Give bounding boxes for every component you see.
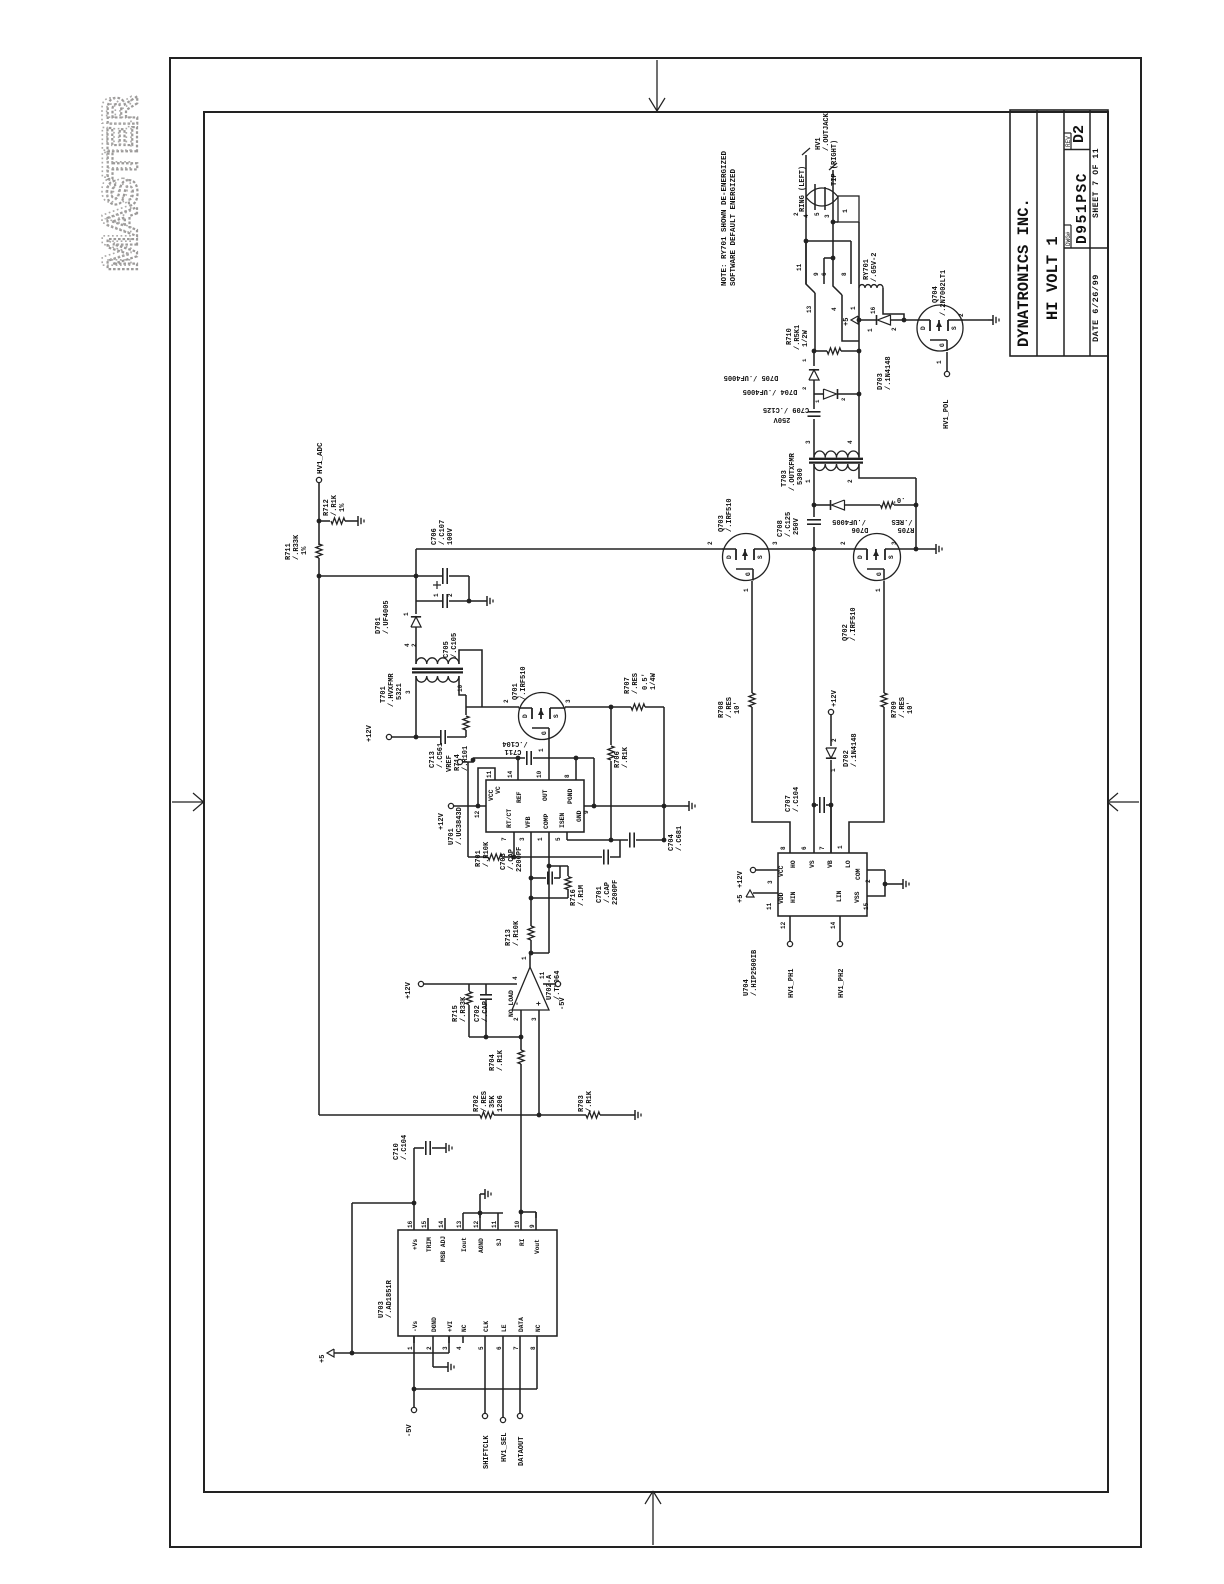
svg-text:/.C561: /.C561: [437, 743, 445, 768]
svg-text:R708: R708: [718, 701, 726, 718]
svg-text:NO LOAD: NO LOAD: [508, 990, 515, 1017]
svg-text:+5: +5: [737, 895, 745, 903]
svg-text:4: 4: [456, 1346, 463, 1350]
svg-text:C704: C704: [668, 834, 676, 851]
svg-text:/.R1K: /.R1K: [497, 1049, 505, 1071]
svg-text:D706: D706: [852, 525, 869, 533]
svg-text:NOTE: RY701 SHOWN DE-ENERGIZE: NOTE: RY701 SHOWN DE-ENERGIZED: [721, 150, 729, 286]
svg-text:250V: 250V: [773, 415, 791, 423]
svg-text:VCC: VCC: [488, 789, 495, 801]
svg-text:/.R33K: /.R33K: [293, 534, 301, 560]
svg-text:1/2W: 1/2W: [802, 329, 810, 347]
svg-text:/.OUTXFMR: /.OUTXFMR: [789, 452, 797, 491]
svg-text:/.1N4148: /.1N4148: [851, 733, 859, 767]
svg-text:G: G: [939, 343, 946, 347]
svg-text:/.RES: /.RES: [726, 697, 734, 718]
svg-text:VB: VB: [827, 860, 834, 868]
svg-text:AGND: AGND: [478, 1238, 485, 1253]
svg-text:D: D: [857, 555, 864, 559]
svg-text:HI VOLT 1: HI VOLT 1: [1044, 236, 1062, 320]
svg-text:5321: 5321: [396, 683, 404, 700]
svg-text:7: 7: [819, 846, 826, 850]
svg-text:Q704: Q704: [932, 286, 940, 303]
svg-text:1: 1: [521, 956, 528, 960]
svg-text:+12V: +12V: [438, 812, 446, 830]
svg-text:U704: U704: [743, 979, 751, 996]
svg-text:/.IRF510: /.IRF510: [726, 498, 734, 532]
svg-text:11: 11: [766, 902, 773, 910]
svg-text:9: 9: [583, 810, 590, 814]
svg-text:CLK: CLK: [483, 1321, 490, 1332]
svg-text:LO: LO: [845, 860, 852, 868]
svg-text:MASTER: MASTER: [93, 96, 140, 268]
svg-text:COM: COM: [855, 868, 862, 880]
svg-text:10: 10: [514, 1220, 521, 1228]
svg-text:10: 10: [536, 770, 543, 778]
svg-text:D705 /.UF4005: D705 /.UF4005: [724, 373, 779, 381]
svg-text:C710: C710: [393, 1143, 401, 1160]
svg-text:MSB ADJ: MSB ADJ: [440, 1236, 447, 1262]
svg-text:+Vs: +Vs: [412, 1239, 419, 1250]
svg-text:/.RES: /.RES: [481, 1091, 489, 1112]
svg-text:14: 14: [507, 770, 514, 778]
svg-text:C709 /.C125: C709 /.C125: [763, 405, 809, 413]
svg-text:VCC: VCC: [778, 865, 785, 877]
svg-text:1: 1: [537, 837, 544, 841]
svg-text:GND: GND: [576, 810, 583, 822]
svg-text:/.R1K: /.R1K: [586, 1090, 594, 1112]
svg-text:HV1_ADC: HV1_ADC: [317, 442, 325, 474]
svg-text:RT/CT: RT/CT: [506, 809, 513, 828]
svg-text:-Vs: -Vs: [412, 1321, 419, 1332]
svg-text:R703: R703: [578, 1095, 586, 1112]
svg-text:D2: D2: [1071, 125, 1088, 143]
svg-text:/.IRF510: /.IRF510: [850, 607, 858, 641]
svg-text:/.R10K: /.R10K: [483, 841, 491, 867]
svg-text:-5V: -5V: [406, 1424, 414, 1437]
svg-text:16: 16: [407, 1220, 414, 1228]
svg-text:10': 10': [734, 701, 742, 714]
svg-text:/.R33K: /.R33K: [460, 996, 468, 1022]
svg-text:/.HVXFMR: /.HVXFMR: [388, 673, 396, 707]
svg-text:0.5': 0.5': [642, 673, 650, 690]
svg-text:DGND: DGND: [431, 1317, 438, 1332]
svg-text:R702: R702: [473, 1095, 481, 1112]
svg-text:3: 3: [442, 1346, 449, 1350]
svg-text:8: 8: [530, 1346, 537, 1350]
svg-text:+VI: +VI: [447, 1321, 454, 1332]
svg-text:2: 2: [707, 541, 714, 545]
svg-text:2200PF: 2200PF: [612, 880, 620, 905]
svg-text:R716: R716: [570, 889, 578, 906]
svg-text:G: G: [745, 572, 752, 576]
svg-text:1: 1: [875, 588, 882, 592]
svg-text:3: 3: [405, 690, 412, 694]
svg-text:R712: R712: [323, 499, 331, 516]
svg-text:35K: 35K: [489, 1095, 497, 1108]
svg-text:250V: 250V: [793, 517, 801, 535]
svg-text:RING (LEFT): RING (LEFT): [799, 166, 807, 212]
svg-text:/.IRF510: /.IRF510: [520, 666, 528, 700]
svg-text:R711: R711: [285, 543, 293, 560]
svg-text:10: 10: [457, 684, 464, 692]
svg-text:/.G5V-2: /.G5V-2: [871, 253, 879, 282]
svg-text:3: 3: [519, 837, 526, 841]
svg-text:S: S: [888, 555, 895, 559]
svg-text:11: 11: [539, 971, 546, 979]
svg-text:/.RES: /.RES: [891, 517, 912, 525]
svg-text:+12V: +12V: [366, 724, 374, 742]
svg-text:SJ: SJ: [496, 1238, 503, 1246]
svg-text:11: 11: [796, 263, 803, 271]
svg-text:1: 1: [538, 748, 545, 752]
svg-text:VFB: VFB: [525, 816, 532, 828]
svg-text:/.UF4005: /.UF4005: [383, 600, 391, 634]
svg-text:1: 1: [842, 209, 849, 213]
svg-text:/.1N4148: /.1N4148: [885, 356, 893, 390]
svg-text:1: 1: [805, 479, 812, 483]
svg-text:Iout: Iout: [461, 1237, 468, 1252]
svg-text:9: 9: [529, 1224, 536, 1228]
svg-text:C702: C702: [474, 1005, 482, 1022]
svg-text:DATE 6/26/99: DATE 6/26/99: [1091, 274, 1101, 342]
svg-text:/.CAP: /.CAP: [482, 1001, 490, 1022]
svg-text:1/4W: 1/4W: [650, 672, 658, 690]
svg-text:C703: C703: [500, 853, 508, 870]
svg-text:S: S: [951, 326, 958, 330]
svg-text:D704 /.UF4005: D704 /.UF4005: [743, 387, 798, 395]
svg-text:1: 1: [850, 306, 857, 310]
svg-text:2200PF: 2200PF: [516, 847, 524, 872]
svg-text:1%: 1%: [301, 546, 309, 555]
svg-text:NC: NC: [535, 1324, 542, 1332]
svg-text:2: 2: [793, 212, 800, 216]
svg-text:7: 7: [501, 837, 508, 841]
svg-text:16: 16: [870, 306, 877, 314]
svg-text:1%: 1%: [339, 503, 347, 512]
svg-text:/.R1M: /.R1M: [578, 885, 586, 906]
svg-text:R710: R710: [786, 328, 794, 345]
svg-text:T701: T701: [380, 686, 388, 703]
svg-text:1: 1: [867, 328, 874, 332]
svg-text:2: 2: [958, 313, 965, 317]
svg-text:3: 3: [772, 541, 779, 545]
svg-text:U701: U701: [448, 828, 456, 845]
svg-text:14: 14: [438, 1220, 445, 1228]
svg-text:DYNATRONICS INC.: DYNATRONICS INC.: [1015, 198, 1033, 347]
svg-text:/.UF4005: /.UF4005: [832, 517, 866, 525]
svg-text:100V: 100V: [447, 527, 455, 545]
svg-text:13: 13: [806, 305, 813, 313]
svg-text:13: 13: [456, 1220, 463, 1228]
svg-text:9: 9: [813, 272, 820, 276]
svg-text:2: 2: [831, 738, 838, 742]
svg-text:4: 4: [404, 643, 411, 647]
svg-text:1: 1: [403, 612, 410, 616]
svg-text:12: 12: [780, 921, 787, 929]
svg-text:+: +: [535, 1001, 544, 1006]
svg-text:1: 1: [433, 593, 440, 597]
svg-text:R709: R709: [891, 701, 899, 718]
svg-text:NC: NC: [461, 1324, 468, 1332]
svg-text:2: 2: [847, 479, 854, 483]
svg-text:C701: C701: [596, 886, 604, 903]
svg-text:U702-A: U702-A: [546, 974, 554, 1000]
svg-text:.0': .0': [893, 495, 906, 503]
svg-text:3: 3: [805, 440, 812, 444]
svg-text:HV1: HV1: [815, 137, 823, 150]
svg-text:3: 3: [767, 880, 774, 884]
svg-text:TRIM: TRIM: [426, 1237, 433, 1252]
svg-text:C713: C713: [429, 751, 437, 768]
svg-text:/.R5K1: /.R5K1: [794, 325, 802, 350]
svg-text:C708: C708: [777, 520, 785, 537]
svg-text:2: 2: [426, 1346, 433, 1350]
svg-text:/.C681: /.C681: [676, 826, 684, 851]
svg-text:7: 7: [513, 1346, 520, 1350]
svg-text:VSS: VSS: [854, 891, 861, 903]
svg-text:4: 4: [512, 976, 519, 980]
svg-text:8: 8: [841, 272, 848, 276]
svg-text:G: G: [541, 731, 548, 735]
svg-text:+5: +5: [319, 1355, 327, 1363]
svg-text:Q701: Q701: [512, 683, 520, 700]
svg-text:/.C125: /.C125: [785, 512, 793, 537]
svg-text:C705: C705: [443, 641, 451, 658]
svg-text:2: 2: [447, 593, 454, 597]
svg-text:2: 2: [891, 327, 898, 331]
svg-text:SOFTWARE DEFAULT ENERGIZED: SOFTWARE DEFAULT ENERGIZED: [730, 168, 738, 286]
svg-text:1206: 1206: [497, 1095, 505, 1112]
svg-text:+12V: +12V: [737, 870, 745, 888]
svg-text:2: 2: [513, 1017, 520, 1021]
svg-text:15: 15: [863, 902, 870, 910]
svg-text:R701: R701: [475, 850, 483, 867]
svg-text:1: 1: [837, 845, 844, 849]
svg-text:S: S: [757, 555, 764, 559]
svg-text:DATA: DATA: [518, 1317, 525, 1332]
svg-text:12: 12: [473, 1220, 480, 1228]
svg-text:R707: R707: [624, 677, 632, 694]
svg-text:/.RES: /.RES: [899, 697, 907, 718]
svg-text:SHIFTCLK: SHIFTCLK: [483, 1435, 491, 1469]
svg-text:VC: VC: [495, 786, 502, 794]
svg-text:LIN: LIN: [836, 890, 843, 902]
svg-text:1: 1: [743, 588, 750, 592]
svg-text:R715: R715: [452, 1005, 460, 1022]
svg-text:3: 3: [565, 699, 572, 703]
svg-text:ISEN: ISEN: [559, 812, 566, 828]
svg-text:D: D: [726, 555, 733, 559]
svg-text:SHEET 7 OF 11: SHEET 7 OF 11: [1092, 148, 1101, 218]
svg-text:D: D: [522, 714, 529, 718]
svg-text:/.R1K: /.R1K: [622, 746, 630, 768]
svg-text:/.CAP: /.CAP: [508, 849, 516, 870]
svg-text:/.C104: /.C104: [793, 787, 801, 812]
svg-text:/.HIP2500IB: /.HIP2500IB: [751, 949, 759, 996]
svg-text:VDD: VDD: [778, 892, 785, 904]
svg-text:/.2N7002LT1: /.2N7002LT1: [940, 270, 948, 316]
svg-text:+12V: +12V: [831, 689, 839, 707]
svg-text:RY701: RY701: [863, 259, 871, 280]
svg-text:S: S: [553, 714, 560, 718]
svg-text:4: 4: [847, 440, 854, 444]
svg-text:D702: D702: [843, 750, 851, 767]
svg-text:HV1_PH1: HV1_PH1: [788, 969, 796, 998]
svg-text:C707: C707: [785, 795, 793, 812]
svg-text:C706: C706: [431, 528, 439, 545]
svg-text:-5V: -5V: [559, 997, 567, 1010]
svg-text:DWG#: DWG#: [1065, 231, 1072, 246]
svg-text:R705: R705: [898, 525, 915, 533]
svg-text:+5: +5: [843, 318, 851, 326]
svg-text:G: G: [876, 572, 883, 576]
svg-text:/.R10K: /.R10K: [513, 920, 521, 946]
svg-text:1: 1: [936, 360, 943, 364]
svg-text:/.RES: /.RES: [632, 673, 640, 694]
svg-text:5: 5: [478, 1346, 485, 1350]
svg-text:2: 2: [801, 387, 808, 390]
svg-text:2: 2: [840, 398, 847, 401]
svg-text:U703: U703: [378, 1301, 386, 1318]
svg-text:TIP (RIGHT): TIP (RIGHT): [831, 140, 839, 186]
svg-text:/.C105: /.C105: [451, 633, 459, 658]
svg-text:D703: D703: [877, 373, 885, 390]
svg-text:2: 2: [865, 879, 872, 883]
svg-text:6: 6: [496, 1346, 503, 1350]
svg-text:REF: REF: [516, 791, 523, 803]
svg-text:/.OUTJACK: /.OUTJACK: [823, 112, 831, 151]
svg-text:/.C107: /.C107: [439, 520, 447, 545]
svg-text:/.C104: /.C104: [502, 739, 527, 747]
svg-text:C711: C711: [505, 747, 522, 755]
svg-text:10': 10': [907, 701, 915, 714]
svg-text:HIN: HIN: [790, 891, 797, 903]
svg-text:Q703: Q703: [718, 515, 726, 532]
svg-text:5: 5: [555, 837, 562, 841]
svg-text:/.R1K: /.R1K: [331, 494, 339, 516]
svg-text:D701: D701: [375, 617, 383, 634]
svg-text:6: 6: [821, 272, 828, 276]
svg-text:3: 3: [891, 541, 898, 545]
svg-text:2: 2: [411, 643, 418, 647]
svg-text:VREF: VREF: [446, 755, 454, 772]
svg-text:DATAOUT: DATAOUT: [518, 1437, 526, 1466]
svg-text:COMP: COMP: [543, 813, 550, 829]
svg-text:2: 2: [503, 699, 510, 703]
svg-text:/.AD1851R: /.AD1851R: [386, 1279, 394, 1318]
svg-text:HV1_SEL: HV1_SEL: [501, 1433, 509, 1462]
svg-text:/.C104: /.C104: [401, 1135, 409, 1160]
svg-text:D951PSC: D951PSC: [1075, 172, 1091, 244]
svg-text:5300: 5300: [797, 468, 805, 485]
svg-text:5: 5: [814, 212, 821, 216]
svg-text:1: 1: [407, 1346, 414, 1350]
svg-text:11: 11: [486, 770, 493, 778]
svg-text:PGND: PGND: [567, 788, 574, 804]
svg-text:D: D: [920, 326, 927, 330]
svg-text:R704: R704: [489, 1054, 497, 1071]
svg-text:HV1_PH2: HV1_PH2: [838, 969, 846, 998]
svg-text:OUT: OUT: [542, 789, 549, 801]
svg-text:VS: VS: [809, 860, 816, 868]
svg-text:/.CAP: /.CAP: [604, 882, 612, 903]
svg-text:3: 3: [531, 1017, 538, 1021]
svg-text:Vout: Vout: [534, 1239, 541, 1254]
svg-text:Q702: Q702: [842, 624, 850, 641]
svg-text:LE: LE: [501, 1324, 508, 1332]
svg-text:R706: R706: [614, 751, 622, 768]
svg-text:6: 6: [801, 846, 808, 850]
svg-text:R713: R713: [505, 929, 513, 946]
svg-text:8: 8: [780, 846, 787, 850]
svg-text:12: 12: [474, 810, 481, 818]
svg-text:/.R101: /.R101: [462, 746, 470, 771]
svg-text:HV1_POL: HV1_POL: [943, 400, 951, 429]
svg-text:15: 15: [421, 1220, 428, 1228]
svg-text:4: 4: [831, 307, 838, 311]
svg-text:2: 2: [840, 541, 847, 545]
svg-text:3: 3: [824, 214, 831, 218]
svg-text:14: 14: [830, 921, 837, 929]
svg-text:4: 4: [803, 214, 810, 218]
svg-text:11: 11: [491, 1220, 498, 1228]
svg-text:RI: RI: [519, 1238, 526, 1246]
svg-text:HO: HO: [790, 860, 797, 868]
svg-text:8: 8: [564, 774, 571, 778]
svg-text:T703: T703: [781, 470, 789, 487]
svg-text:/.UC3843D: /.UC3843D: [456, 807, 464, 845]
svg-text:+12V: +12V: [405, 981, 413, 999]
